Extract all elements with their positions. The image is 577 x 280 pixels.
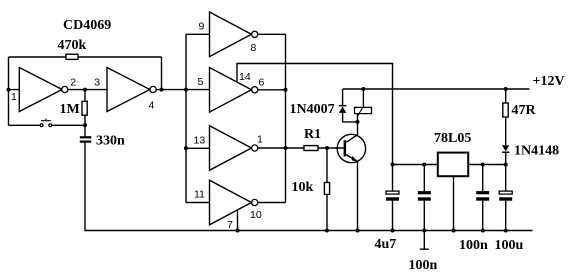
svg-text:2: 2: [70, 77, 76, 89]
svg-text:100u: 100u: [495, 238, 524, 253]
svg-text:R1: R1: [304, 127, 321, 142]
svg-text:330n: 330n: [96, 134, 125, 149]
svg-text:+12V: +12V: [533, 74, 565, 89]
svg-text:470k: 470k: [58, 38, 87, 53]
svg-text:7: 7: [227, 219, 233, 231]
svg-text:78L05: 78L05: [434, 131, 471, 146]
svg-text:47R: 47R: [512, 103, 537, 118]
svg-text:10: 10: [250, 209, 262, 221]
svg-text:4: 4: [149, 100, 155, 112]
svg-text:8: 8: [251, 42, 257, 54]
svg-text:3: 3: [94, 77, 100, 89]
svg-text:10k: 10k: [292, 180, 314, 195]
svg-text:1: 1: [257, 134, 263, 146]
svg-text:4u7: 4u7: [375, 237, 397, 252]
svg-text:1N4148: 1N4148: [514, 144, 559, 159]
svg-text:5: 5: [198, 76, 204, 88]
svg-text:11: 11: [194, 189, 205, 201]
svg-text:100n: 100n: [459, 238, 488, 253]
svg-text:1: 1: [11, 91, 17, 103]
svg-text:100n: 100n: [409, 258, 438, 273]
svg-text:1N4007: 1N4007: [290, 102, 335, 117]
svg-text:9: 9: [199, 21, 205, 33]
svg-text:14: 14: [239, 71, 251, 83]
svg-text:13: 13: [194, 135, 206, 147]
svg-text:1M: 1M: [60, 102, 80, 117]
svg-text:6: 6: [259, 77, 265, 89]
svg-text:CD4069: CD4069: [63, 18, 111, 33]
